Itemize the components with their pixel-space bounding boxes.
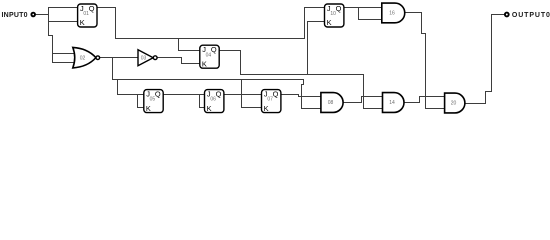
wire to AND20 bottom input xyxy=(426,108,445,110)
wire riser to FF10 J xyxy=(304,8,306,39)
wire stair up to OUTPUT xyxy=(486,15,492,104)
wire FF05 Q to FF06 J xyxy=(163,94,205,96)
svg-text:Q: Q xyxy=(336,4,342,13)
wire stair down from AND16 xyxy=(422,13,426,109)
NOT gate 03 xyxy=(138,50,157,66)
wire AND08 output xyxy=(343,102,361,104)
svg-text:K: K xyxy=(327,18,332,27)
wire drop to FF04 J xyxy=(178,39,180,51)
AND gate 08 xyxy=(321,93,343,113)
svg-text:05: 05 xyxy=(150,97,156,103)
svg-text:Q: Q xyxy=(211,45,217,54)
wire to NOR02 bottom input xyxy=(53,62,76,64)
wire FF10 Q to AND16 top input xyxy=(344,7,382,9)
wire AND16 output xyxy=(405,12,422,14)
wire to FF06 K xyxy=(200,107,205,109)
wire drop FF04 Q line to AND14 bottom xyxy=(363,75,365,109)
svg-text:10: 10 xyxy=(330,11,336,17)
AND gate 20 xyxy=(445,93,465,113)
svg-text:03: 03 xyxy=(141,55,147,61)
svg-text:20: 20 xyxy=(451,101,457,107)
svg-text:01: 01 xyxy=(83,11,89,17)
wire to FF10 J xyxy=(305,7,325,9)
wire branch down from NOR02 output xyxy=(112,58,114,80)
wire FF04 Q output xyxy=(219,50,240,52)
wire drop bus1 to FF07 K xyxy=(241,80,243,108)
svg-text:K: K xyxy=(207,104,212,113)
wire bus1 horizontal xyxy=(113,79,304,81)
wire up jog to AND14 top xyxy=(362,97,383,103)
wire long line FF01 Q east xyxy=(116,38,305,40)
wire FF04 Q line east xyxy=(241,74,364,76)
svg-text:INPUT0: INPUT0 xyxy=(2,12,28,19)
wire up jog to AND20 top input xyxy=(420,97,445,103)
svg-text:16: 16 xyxy=(389,11,395,17)
wire bus1 drop jog xyxy=(302,80,304,109)
wire NOR02 output to NOT03 input xyxy=(100,57,138,59)
wire AND20 output xyxy=(465,103,486,105)
flip-flop U06 xyxy=(205,90,224,113)
wire to FF01 J xyxy=(49,7,78,9)
wire FF06 Q to FF07 J xyxy=(224,94,262,96)
wire drop from NOT03 to FF04 K xyxy=(182,58,200,64)
wire FF01 Q output xyxy=(97,7,116,9)
wire to AND14 bottom input xyxy=(364,108,383,110)
svg-text:K: K xyxy=(146,104,151,113)
wire to FF05 K xyxy=(138,107,144,109)
wire vertical input bus xyxy=(48,8,50,36)
svg-text:Q: Q xyxy=(89,4,95,13)
wire to FF07 K xyxy=(242,107,262,109)
svg-text:Q: Q xyxy=(155,90,161,99)
wire down from FF04 Q xyxy=(240,51,242,75)
svg-text:Q: Q xyxy=(216,90,222,99)
wire NOT03 output xyxy=(157,57,181,59)
wire to FF10 K xyxy=(308,21,325,23)
AND gate 14 xyxy=(383,93,405,113)
flip-flop U07 xyxy=(262,90,281,113)
wire riser to FF10 K xyxy=(307,22,309,75)
svg-text:K: K xyxy=(80,18,85,27)
svg-text:K: K xyxy=(202,59,207,68)
svg-text:14: 14 xyxy=(389,100,395,106)
flip-flop U01 xyxy=(78,4,97,27)
wire to NOR02 top input xyxy=(53,53,76,55)
flip-flop U05 xyxy=(144,90,163,113)
input node xyxy=(31,13,35,17)
wire to FF05 J xyxy=(118,94,144,96)
wire to AND08 bottom input xyxy=(302,108,321,110)
svg-text:06: 06 xyxy=(210,97,216,103)
wire to FF01 K xyxy=(49,21,78,23)
wire drop to FF05 K xyxy=(137,95,139,108)
wire to OUTPUT node xyxy=(492,14,506,16)
wire jog to AND08 top input xyxy=(299,95,321,97)
wire to AND16 bottom input xyxy=(359,19,382,21)
NOR gate 02 xyxy=(73,47,100,68)
wire AND14 output xyxy=(404,102,420,104)
AND gate 16 xyxy=(382,3,405,23)
svg-text:02: 02 xyxy=(80,56,86,62)
svg-text:07: 07 xyxy=(267,97,273,103)
svg-text:K: K xyxy=(264,104,269,113)
svg-text:08: 08 xyxy=(328,100,334,106)
wire drop to AND16 bottom input xyxy=(358,8,360,20)
svg-text:Q: Q xyxy=(273,90,279,99)
svg-text:04: 04 xyxy=(206,52,212,58)
output node xyxy=(505,13,509,17)
svg-text:OUTPUT0: OUTPUT0 xyxy=(512,12,550,19)
wire INPUT0 to junction xyxy=(35,14,49,16)
wire drop to FF05 row xyxy=(117,80,119,95)
flip-flop U04 xyxy=(200,45,219,68)
wire FF07 Q output xyxy=(280,94,299,96)
flip-flop U10 xyxy=(325,4,344,27)
wire down from FF01 Q xyxy=(115,8,117,39)
wire to FF04 J xyxy=(179,50,200,52)
wire drop to FF06 K xyxy=(199,95,201,108)
wire jog down to NOR inputs xyxy=(49,36,53,63)
